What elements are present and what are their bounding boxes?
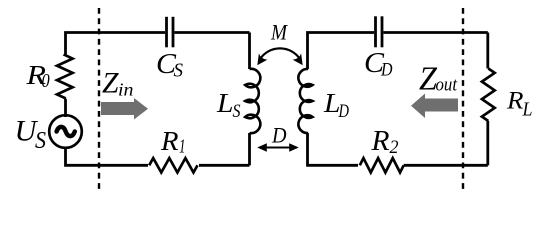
resistor R2 — [360, 158, 404, 172]
svg-text:R: R — [160, 126, 179, 156]
svg-text:D: D — [380, 60, 393, 81]
svg-text:L: L — [522, 99, 533, 121]
resistor RL — [482, 69, 495, 122]
svg-text:M: M — [270, 20, 288, 45]
wire: left loop bottom — [66, 149, 149, 165]
wire: LS bottom stub — [248, 133, 251, 165]
svg-text:in: in — [118, 80, 134, 100]
wire: LS top stub — [248, 33, 251, 70]
AC source US — [49, 115, 82, 148]
dashed boundary line (right) — [462, 8, 464, 192]
wire: right rail — [486, 33, 489, 69]
wire: right loop bottom — [308, 133, 359, 165]
resistor R0 — [57, 54, 73, 99]
distance arrow D — [261, 147, 295, 149]
svg-text:R: R — [506, 88, 524, 115]
arrow Zin (gray, right) — [101, 98, 148, 120]
arrow Zout (gray, left) — [411, 94, 458, 119]
capacitor CS — [165, 17, 168, 48]
svg-text:0: 0 — [42, 70, 50, 92]
wire: right loop top — [308, 33, 375, 70]
svg-text:S: S — [233, 101, 241, 122]
svg-text:out: out — [436, 75, 458, 96]
inductor LS — [245, 69, 260, 133]
dashed boundary line (left) — [98, 8, 100, 192]
svg-text:S: S — [35, 128, 46, 154]
svg-text:1: 1 — [179, 136, 186, 158]
wire: left loop top — [66, 33, 166, 56]
inductor LD — [298, 69, 312, 133]
svg-text:S: S — [174, 60, 184, 82]
svg-text:R: R — [370, 126, 389, 157]
wire: R0 to source — [64, 99, 67, 117]
mutual coupling arrow M — [260, 48, 301, 60]
svg-text:D: D — [271, 123, 287, 148]
svg-text:L: L — [216, 88, 234, 118]
svg-text:Z: Z — [102, 67, 119, 100]
svg-text:2: 2 — [390, 137, 399, 158]
resistor R1 — [149, 158, 197, 172]
svg-text:D: D — [338, 101, 349, 122]
capacitor CD — [374, 16, 377, 47]
